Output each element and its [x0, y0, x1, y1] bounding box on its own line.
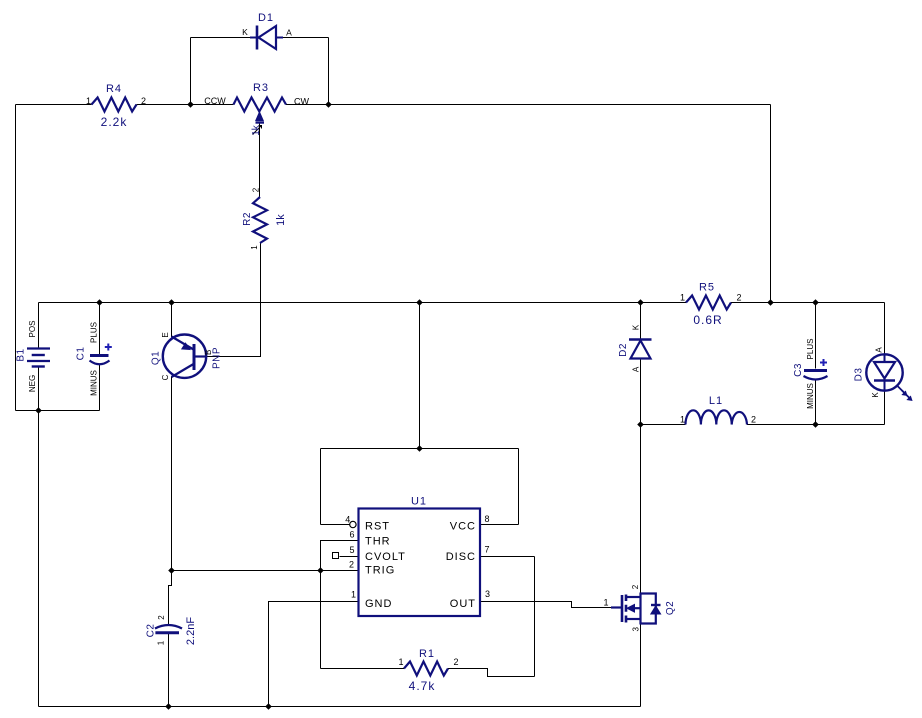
svg-text:D3: D3	[854, 368, 865, 382]
potentiometer R3	[234, 98, 287, 135]
svg-text:R4: R4	[106, 83, 122, 95]
svg-text:D2: D2	[618, 343, 629, 357]
resistor R5	[686, 296, 731, 310]
svg-text:CVOLT: CVOLT	[365, 551, 406, 563]
wire L1 pin1 to D2 junction	[641, 424, 686, 426]
wire THR stub and drop	[321, 541, 359, 571]
svg-text:1: 1	[680, 415, 685, 425]
svg-text:1: 1	[680, 293, 685, 303]
svg-text:3: 3	[485, 589, 490, 599]
wire D1 left vertical	[190, 38, 192, 105]
junction GND drop ground rail	[265, 703, 272, 710]
wire VCC stub	[480, 524, 519, 526]
svg-text:2: 2	[349, 560, 354, 570]
resistor R4	[92, 98, 137, 112]
svg-text:2: 2	[252, 187, 261, 192]
wire D2 cathode lead	[640, 303, 642, 339]
svg-text:4.7k: 4.7k	[409, 679, 436, 693]
svg-text:1: 1	[398, 657, 403, 667]
svg-text:K: K	[242, 27, 248, 37]
svg-text:2: 2	[453, 657, 458, 667]
inductor L1	[686, 410, 748, 424]
svg-text:TRIG: TRIG	[365, 565, 395, 577]
svg-text:R3: R3	[253, 82, 269, 94]
svg-text:C: C	[161, 374, 170, 380]
wire R5 pin2 to D3 corner	[731, 302, 885, 304]
wire D2 junction to Q2 drain	[640, 425, 642, 593]
svg-text:NEG: NEG	[28, 375, 37, 392]
wire C1 minus lead	[99, 365, 101, 411]
wire D1 right vertical	[328, 38, 330, 105]
diode D1	[250, 26, 283, 50]
wire R3 CW to top-right corner	[286, 104, 771, 106]
svg-text:2.2nF: 2.2nF	[185, 617, 197, 645]
junction D2/L1 output rail	[637, 421, 644, 428]
wire Q1 emitter lead	[171, 303, 173, 338]
svg-text:R2: R2	[242, 212, 253, 226]
wire top-right corner drop	[770, 105, 772, 303]
svg-text:2.2k: 2.2k	[101, 115, 128, 129]
resistor R2	[253, 197, 267, 243]
wire R4 pin2 to R3 CCW junction	[137, 104, 234, 106]
svg-text:VCC: VCC	[450, 521, 476, 533]
svg-text:2: 2	[631, 584, 640, 589]
wire RST drop	[320, 449, 322, 525]
wire C3 plus lead	[815, 303, 817, 369]
svg-text:2: 2	[751, 415, 756, 425]
junction VCC drop rail	[416, 299, 423, 306]
svg-text:7: 7	[484, 545, 489, 555]
junction C3 top rail	[812, 299, 819, 306]
wire B1 positive lead	[38, 303, 40, 348]
wire D3 cathode lead	[884, 390, 886, 425]
svg-text:R1: R1	[419, 648, 435, 660]
wire OUT to Q2 gate	[480, 602, 611, 608]
wire C2 bottom lead	[168, 634, 170, 707]
svg-text:2: 2	[157, 615, 166, 620]
capacitor C3	[804, 359, 828, 380]
junction TRIG/C2/Q1 collector	[168, 567, 175, 574]
svg-text:5: 5	[349, 545, 354, 555]
wire battery negative drop	[38, 411, 40, 707]
svg-text:MINUS: MINUS	[90, 370, 99, 396]
svg-text:0.6R: 0.6R	[693, 313, 722, 327]
wire ground rail	[39, 706, 641, 708]
wire R1 pin1 lead	[321, 668, 405, 670]
capacitor C2	[155, 625, 182, 633]
wire DISC stub	[480, 556, 535, 558]
svg-text:D1: D1	[258, 12, 274, 24]
resistor R1	[404, 662, 448, 676]
svg-text:R5: R5	[699, 282, 715, 294]
svg-text:1k: 1k	[251, 124, 262, 136]
svg-text:GND: GND	[365, 598, 392, 610]
svg-text:U1: U1	[411, 496, 427, 508]
svg-text:CCW: CCW	[204, 96, 226, 106]
svg-text:C2: C2	[146, 624, 157, 638]
svg-text:PLUS: PLUS	[806, 339, 815, 360]
svg-text:2: 2	[141, 96, 146, 106]
svg-text:1: 1	[603, 598, 608, 608]
junction R5 pin2 corner drop	[767, 299, 774, 306]
junction R4/R3/D1 left	[187, 101, 194, 108]
svg-text:RST: RST	[365, 521, 390, 533]
svg-text:PNP: PNP	[212, 347, 223, 369]
svg-text:POS: POS	[28, 321, 37, 338]
junction THR/TRIG	[317, 567, 324, 574]
svg-text:B: B	[204, 350, 213, 355]
svg-text:MINUS: MINUS	[806, 383, 815, 409]
junction C1 top	[96, 299, 103, 306]
svg-text:A: A	[875, 347, 884, 353]
svg-text:1: 1	[86, 96, 91, 106]
svg-text:4: 4	[345, 515, 350, 525]
svg-text:Q2: Q2	[665, 601, 676, 615]
svg-text:C3: C3	[793, 363, 804, 377]
wire DISC drop	[534, 557, 536, 677]
wire CVOLT stub	[340, 556, 359, 558]
svg-text:1k: 1k	[275, 214, 287, 226]
wire C1 plus lead	[99, 303, 101, 355]
svg-text:CW: CW	[294, 97, 309, 107]
wire D3 anode lead	[884, 303, 886, 356]
junction B1 negative	[35, 407, 42, 414]
svg-text:PLUS: PLUS	[90, 322, 99, 343]
diode D2	[629, 340, 652, 359]
wire D1 cathode lead	[191, 37, 251, 39]
svg-text:3: 3	[632, 627, 641, 632]
svg-text:6: 6	[349, 530, 354, 540]
wire C3 minus lead	[815, 380, 817, 425]
svg-text:Q1: Q1	[151, 351, 162, 365]
junction C3 bottom rail	[812, 421, 819, 428]
wire D1 anode lead	[283, 37, 329, 39]
svg-text:C1: C1	[76, 347, 87, 361]
wire THR-TRIG junction down to R1	[320, 571, 322, 669]
LED D3	[866, 354, 912, 400]
svg-text:THR: THR	[365, 536, 391, 548]
wire VCC side drop	[518, 449, 520, 525]
junction U1 top loop	[416, 445, 423, 452]
wire B1 negative lead	[38, 367, 40, 411]
wire VCC drop to U1 loop	[419, 303, 421, 449]
wire top rail left lead to R4	[16, 104, 92, 106]
wire R1 pin2 lead with jog	[448, 669, 535, 677]
wire U1 top loop horizontal	[321, 448, 519, 450]
wire battery loop bottom	[16, 410, 100, 412]
junction C2 bottom ground rail	[165, 703, 172, 710]
svg-text:1: 1	[351, 590, 356, 600]
wire left rail down	[15, 105, 17, 411]
svg-text:K: K	[871, 392, 880, 398]
svg-text:B1: B1	[16, 348, 27, 361]
battery B1	[27, 349, 50, 367]
op-amp U1	[333, 509, 481, 617]
svg-text:A: A	[632, 366, 641, 372]
svg-text:A: A	[286, 28, 292, 38]
svg-text:8: 8	[484, 514, 489, 524]
svg-text:OUT: OUT	[450, 598, 476, 610]
transistor Q2	[611, 593, 661, 625]
wire RST stub	[321, 524, 350, 526]
svg-text:1: 1	[250, 245, 259, 250]
wire R3 wiper to R2 pin2	[259, 124, 261, 198]
wire Q1 base to R2 pin1	[206, 243, 261, 357]
wire GND stub and drop	[269, 602, 359, 707]
svg-text:L1: L1	[709, 395, 723, 407]
wire TRIG net	[172, 570, 359, 572]
capacitor C1	[90, 344, 112, 365]
wire D2 anode lead	[640, 360, 642, 425]
svg-text:E: E	[161, 332, 170, 337]
svg-text:DISC: DISC	[446, 551, 476, 563]
junction Q1 emitter rail	[168, 299, 175, 306]
wire Q2 source to ground rail	[640, 625, 642, 707]
wire C2 top lead with jog	[169, 571, 172, 627]
svg-text:2: 2	[736, 293, 741, 303]
junction D2/R5 rail	[637, 299, 644, 306]
transistor Q1	[163, 335, 207, 378]
junction R3/D1 right	[325, 101, 332, 108]
wire output rail right	[747, 424, 885, 426]
svg-text:K: K	[632, 324, 641, 330]
svg-text:1: 1	[157, 640, 166, 645]
wire Q1 collector lead	[171, 377, 173, 571]
wire VCC rail	[39, 302, 687, 304]
